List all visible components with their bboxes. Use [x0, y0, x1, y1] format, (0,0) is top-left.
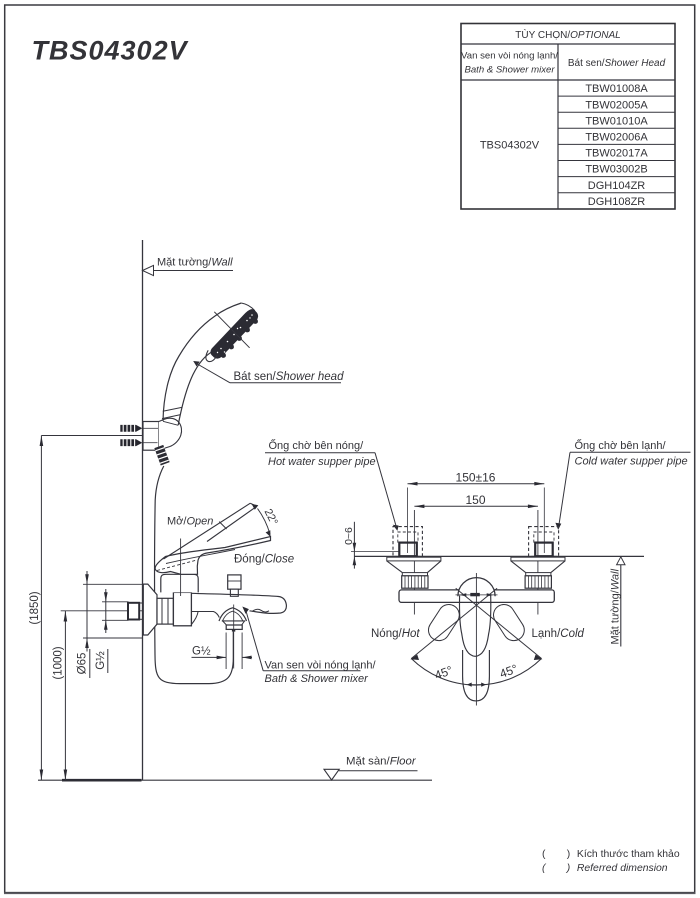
front wall line — [354, 555, 644, 557]
handle right 45 lobe — [489, 601, 528, 645]
45 degree swing arc — [410, 655, 542, 686]
closed lever (side) — [155, 537, 270, 575]
svg-text:Van sen vòi nóng lạnh/: Van sen vòi nóng lạnh/ — [265, 659, 377, 671]
mixer body bar (front) — [399, 590, 554, 603]
svg-text:G½: G½ — [95, 651, 107, 670]
spout (side) — [191, 593, 286, 624]
mixer inlet nut (side) — [157, 598, 173, 624]
svg-text:TBW03002B: TBW03002B — [585, 164, 647, 176]
diverter knob — [228, 575, 241, 596]
spout outlet boss — [219, 608, 247, 621]
spout underside wave — [252, 609, 269, 612]
svg-text:Ống chờ bên nóng/: Ống chờ bên nóng/ — [269, 438, 365, 452]
options table — [461, 24, 675, 210]
svg-text:G½: G½ — [192, 646, 211, 658]
hot eccentric connector — [387, 557, 441, 588]
shower head spray face — [211, 310, 258, 359]
open lever lines — [164, 503, 257, 559]
wall screw top — [120, 424, 158, 433]
cold eccentric connector — [511, 557, 565, 588]
bonnet hidden edge (dashed) — [160, 568, 196, 572]
shower holder bracket — [143, 418, 182, 450]
svg-text:(1000): (1000) — [53, 646, 65, 679]
cold supply rough-in (dashed) — [529, 527, 559, 557]
svg-text:TBW01010A: TBW01010A — [585, 115, 648, 127]
supply centerline — [61, 610, 170, 612]
svg-text:TBW01008A: TBW01008A — [585, 83, 648, 95]
handle dome (front) — [458, 578, 495, 597]
mixer label leader arrow — [242, 607, 360, 671]
supply pipe stub behind wall — [128, 603, 143, 620]
svg-text:Hot water supper pipe: Hot water supper pipe — [268, 456, 376, 468]
dim 150±16 — [408, 471, 545, 554]
lever crease line — [166, 550, 235, 564]
svg-text:Mặt tường/Wall: Mặt tường/Wall — [609, 568, 621, 644]
dimension (1000) supply height — [53, 611, 68, 780]
floor level triangle — [324, 769, 339, 780]
outlet collar and nut — [223, 605, 245, 669]
head cross line — [214, 312, 249, 348]
open label leader — [180, 539, 182, 597]
handle grip rings — [162, 407, 182, 418]
central lever (front) — [459, 596, 490, 701]
svg-text:Cold water supper pipe: Cold water supper pipe — [575, 456, 688, 468]
shower handle outer edge — [163, 303, 241, 421]
svg-text:TBW02017A: TBW02017A — [585, 148, 648, 160]
hot supply rough-in (dashed) — [393, 527, 422, 557]
lever axis — [475, 573, 477, 706]
svg-text:Bath & Shower mixer: Bath & Shower mixer — [464, 65, 555, 76]
floor line — [38, 779, 432, 781]
svg-text:(1850): (1850) — [29, 591, 41, 624]
hot pipe label — [265, 438, 399, 531]
dimension O65 flange — [77, 571, 143, 678]
svg-text:0~6: 0~6 — [343, 527, 355, 545]
svg-text:TÙY CHỌN/OPTIONAL: TÙY CHỌN/OPTIONAL — [515, 28, 620, 41]
svg-text:150: 150 — [465, 493, 485, 507]
svg-text:TBW02006A: TBW02006A — [585, 132, 648, 144]
dimension G1/2 supply thread (vertical) — [95, 589, 129, 673]
hose coil at bracket — [155, 447, 168, 464]
svg-text:Mở/Open: Mở/Open — [167, 516, 213, 528]
shower hose — [155, 466, 234, 684]
shower handle inner edge — [178, 352, 212, 426]
mixer body (side) — [173, 592, 191, 625]
mixer wall flange (side) — [143, 584, 157, 635]
dim 0~6 — [343, 522, 399, 569]
shower head end cap — [241, 303, 255, 311]
wall screw bottom — [120, 438, 157, 447]
front wall marker — [609, 557, 625, 647]
svg-text:Nóng/Hot: Nóng/Hot — [371, 628, 420, 640]
handle end cap — [163, 421, 178, 425]
dome pivot dim — [456, 593, 498, 597]
svg-text:TBS04302V: TBS04302V — [480, 140, 540, 152]
dim 150 — [414, 493, 538, 615]
45 degree radius cross lines — [411, 588, 541, 658]
svg-text:TBW02005A: TBW02005A — [585, 99, 648, 111]
svg-text:Bath & Shower mixer: Bath & Shower mixer — [265, 673, 370, 685]
svg-text:DGH104ZR: DGH104ZR — [588, 180, 646, 192]
cold pipe label — [555, 438, 690, 530]
svg-text:DGH108ZR: DGH108ZR — [588, 196, 646, 208]
svg-text:Bát sen/Shower Head: Bát sen/Shower Head — [568, 58, 666, 69]
lever hidden dash — [157, 560, 197, 571]
svg-text:Ống chờ bên lạnh/: Ống chờ bên lạnh/ — [575, 438, 667, 452]
G1/2 outlet dim — [192, 633, 253, 670]
svg-text:Mặt sàn/Floor: Mặt sàn/Floor — [346, 755, 417, 767]
shower head label leader — [193, 361, 341, 383]
svg-text:Ø65: Ø65 — [77, 653, 89, 675]
svg-text:Mặt tường/Wall: Mặt tường/Wall — [157, 256, 233, 268]
mixer bonnet dome — [161, 574, 198, 592]
head hook loop — [206, 350, 217, 361]
svg-text:Đóng/Close: Đóng/Close — [234, 554, 294, 566]
22 degree arc — [252, 504, 271, 537]
dimension (1850) wall height — [29, 436, 143, 781]
svg-text:150±16: 150±16 — [456, 471, 496, 485]
lever bottom swing arrows — [467, 683, 486, 687]
wall line (side view) — [142, 240, 144, 780]
svg-text:Van sen vòi nóng lạnh/: Van sen vòi nóng lạnh/ — [461, 51, 558, 62]
svg-text:TBS04302V: TBS04302V — [32, 36, 189, 66]
svg-text:Lạnh/Cold: Lạnh/Cold — [532, 628, 585, 640]
wall label arrow — [143, 265, 234, 275]
handle left 45 lobe — [424, 601, 463, 645]
svg-text:Bát sen/Shower head: Bát sen/Shower head — [234, 371, 345, 383]
